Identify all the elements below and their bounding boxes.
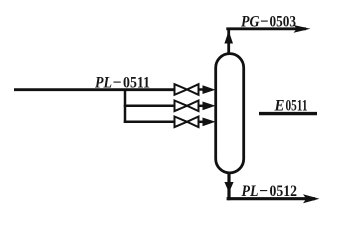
- svg-text:0511: 0511: [123, 74, 150, 91]
- svg-text:PL: PL: [94, 74, 112, 91]
- svg-text:0503: 0503: [270, 13, 297, 30]
- svg-text:E: E: [274, 97, 285, 114]
- svg-text:−: −: [259, 183, 268, 200]
- svg-text:0512: 0512: [270, 183, 298, 200]
- svg-text:−: −: [260, 13, 269, 30]
- svg-text:0511: 0511: [286, 97, 308, 114]
- svg-text:PL: PL: [241, 183, 259, 200]
- svg-text:−: −: [113, 74, 122, 91]
- svg-text:PG: PG: [240, 13, 260, 30]
